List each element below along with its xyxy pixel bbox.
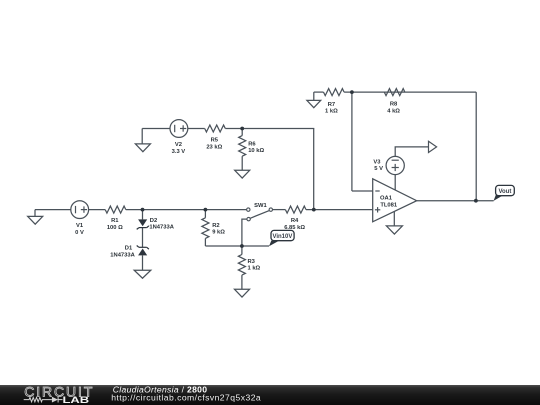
- svg-text:http://circuitlab.com/cfsvn27q: http://circuitlab.com/cfsvn27q5x32a: [111, 392, 261, 402]
- svg-text:1N4733A: 1N4733A: [149, 225, 174, 231]
- svg-text:Vin10V: Vin10V: [272, 234, 292, 240]
- svg-text:1N4733A: 1N4733A: [110, 253, 135, 259]
- svg-text:10 kΩ: 10 kΩ: [248, 148, 264, 154]
- svg-text:0 V: 0 V: [75, 230, 84, 236]
- svg-text:LAB: LAB: [63, 395, 90, 405]
- svg-text:TL081: TL081: [380, 202, 398, 208]
- svg-text:6.85 kΩ: 6.85 kΩ: [284, 225, 305, 231]
- svg-text:D2: D2: [150, 218, 157, 224]
- svg-text:V2: V2: [175, 142, 182, 148]
- svg-text:4 kΩ: 4 kΩ: [387, 108, 400, 114]
- svg-text:23 kΩ: 23 kΩ: [206, 144, 222, 150]
- svg-text:R3: R3: [248, 259, 256, 265]
- svg-text:V3: V3: [373, 160, 381, 166]
- svg-text:R2: R2: [212, 223, 219, 229]
- svg-text:100 Ω: 100 Ω: [107, 225, 123, 231]
- svg-text:OA1: OA1: [380, 196, 393, 202]
- svg-text:3.3 V: 3.3 V: [172, 149, 186, 155]
- svg-text:R1: R1: [111, 218, 119, 224]
- svg-text:R6: R6: [248, 142, 256, 148]
- svg-text:R7: R7: [328, 102, 335, 108]
- svg-text:R8: R8: [390, 102, 398, 108]
- svg-text:9 kΩ: 9 kΩ: [212, 229, 225, 235]
- svg-text:R4: R4: [291, 218, 299, 224]
- svg-text:5 V: 5 V: [374, 166, 383, 172]
- svg-text:Vout: Vout: [498, 189, 511, 195]
- svg-text:1 kΩ: 1 kΩ: [248, 266, 261, 272]
- svg-text:D1: D1: [125, 246, 133, 252]
- svg-text:R5: R5: [211, 138, 219, 144]
- svg-text:1 kΩ: 1 kΩ: [325, 108, 338, 114]
- svg-text:SW1: SW1: [254, 203, 267, 209]
- svg-text:V1: V1: [76, 223, 84, 229]
